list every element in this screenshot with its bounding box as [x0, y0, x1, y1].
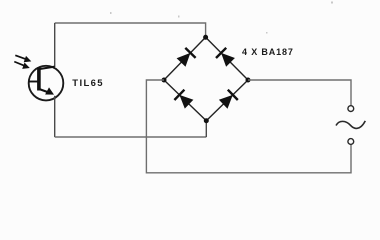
light arrow 1 [15, 55, 26, 59]
diode D3 lower-left (anode bottom node, cathode left node) [174, 90, 193, 109]
wire: bridge diamond lower-left edge [164, 80, 206, 121]
wire: bridge diamond lower-right edge [206, 80, 248, 121]
diode D4 lower-right (anode bottom node, cathode right node) [219, 90, 238, 109]
AC source terminal (bottom) [348, 139, 354, 145]
wire: bridge diamond upper-right edge [206, 37, 248, 80]
node: bridge left junction [162, 78, 167, 83]
phototransistor base bar [37, 67, 41, 90]
diode D2 upper-right (anode right node, cathode top node) [216, 48, 235, 67]
wire: top rail from collector corner to bridge top node [55, 23, 206, 37]
phototransistor emitter stroke with arrow [40, 89, 50, 93]
node: bridge bottom junction [204, 118, 209, 123]
svg-text:4 X BA187: 4 X BA187 [242, 47, 294, 57]
svg-text:TIL65: TIL65 [72, 78, 104, 89]
wire: emitter rail to bridge bottom stub [55, 136, 207, 138]
AC source terminal (top) [348, 106, 354, 112]
wire: bridge left node to bottom rail to AC bottom terminal [146, 80, 351, 173]
wire: emitter lead down [54, 96, 56, 137]
phototransistor base lead [29, 81, 38, 83]
diode D1 upper-left (anode left node, cathode top node) [177, 48, 196, 67]
wire: collector lead down to phototransistor [54, 23, 56, 67]
wire: bridge diamond upper-left edge [164, 37, 206, 80]
phototransistor TIL65 envelope circle [29, 66, 64, 101]
node: bridge right junction [246, 78, 251, 83]
node: bridge top junction [203, 35, 208, 40]
phototransistor collector stroke [40, 67, 55, 69]
AC source sine symbol [336, 121, 365, 128]
light arrow 2 [14, 62, 24, 66]
speck artifacts [110, 2, 333, 34]
wire: stub up to bridge bottom node [205, 121, 207, 137]
wire: bridge right node to AC top terminal [248, 80, 351, 106]
